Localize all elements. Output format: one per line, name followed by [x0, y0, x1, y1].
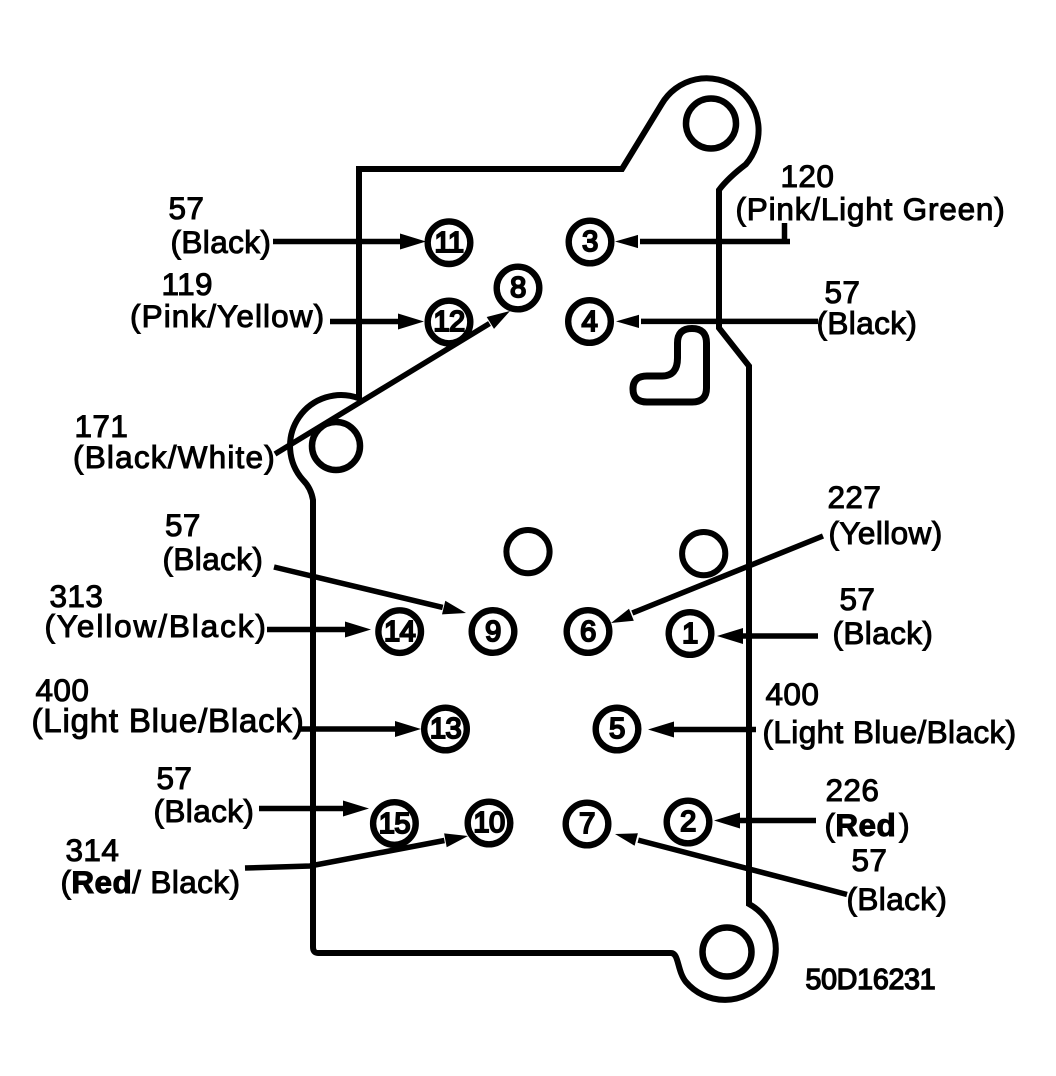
pin 13 number [430, 715, 461, 744]
pin 6 number [580, 618, 596, 647]
label 57 (Black) for pin 7 [0, 0, 1, 1]
pin 4 terminal [568, 300, 611, 343]
pin 9 number [485, 618, 501, 647]
pin 7 terminal [566, 803, 609, 846]
pin 1 number [682, 620, 698, 649]
index hole left center [506, 530, 549, 573]
keying slot (L-shaped) [633, 329, 707, 403]
stub for 120 label [782, 223, 788, 242]
pin 3 terminal [569, 221, 612, 264]
label 119 (Pink/Yellow) for pin 12 [0, 0, 1, 1]
pin 4 number [582, 308, 598, 337]
label 226 (Red) for pin 2 [0, 0, 1, 1]
pin 5 terminal [596, 708, 639, 751]
pin 6 terminal [567, 610, 610, 653]
wire 400 to pin 13 [300, 721, 421, 737]
pin 11 number [434, 229, 463, 258]
label 57 (Black) for pin 1 [0, 0, 1, 1]
wire 57 to pin 7 [615, 833, 847, 894]
wire 57 to pin 1 [717, 628, 818, 644]
pin 14 terminal [378, 610, 421, 653]
wire 314 to pin 10 [245, 833, 468, 868]
label 400 (Light Blue/Black) for pin 13 [0, 0, 1, 1]
pin 7 number [579, 810, 595, 839]
label 227 (Yellow) for pin 6 [0, 0, 1, 1]
pin 11 terminal [428, 221, 471, 264]
pin 12 number [433, 308, 464, 337]
pin 2 number [680, 808, 696, 837]
label 171 (Black/White) for pin 8 [0, 0, 1, 1]
pin 10 number [473, 809, 504, 838]
label 120 (Pink/Light Green) for pin 3 [0, 0, 1, 1]
pin 2 terminal [667, 801, 710, 844]
pin 10 terminal [468, 802, 511, 845]
pin 15 terminal [373, 802, 416, 845]
pin 12 terminal [428, 301, 471, 344]
label 57 (Black) for pin 4 [0, 0, 1, 1]
wire 57 to pin 15 [259, 801, 369, 817]
pin 3 number [582, 228, 598, 257]
pin 13 terminal [424, 708, 467, 751]
top mounting hole [686, 99, 736, 149]
label 400 (Light Blue/Black) for pin 5 [0, 0, 1, 1]
wire 57 to pin 11 [273, 234, 426, 250]
label 57 (Black) for pin 9 [0, 0, 1, 1]
bottom mounting hole [703, 928, 752, 977]
pin 8 terminal [497, 267, 540, 310]
wire 57 to pin 4 [616, 315, 818, 328]
left mounting hole [312, 422, 360, 470]
wire 120 to pin 3 [615, 235, 790, 248]
wire 313 to pin 14 [267, 622, 371, 638]
label 313 (Yellow/Black) for pin 14 [0, 0, 1, 1]
pin 9 terminal [472, 610, 515, 653]
label 57 (Black) for pin 11 [0, 0, 1, 1]
label 57 (Black) for pin 15 [0, 0, 1, 1]
index hole right center [682, 532, 725, 575]
wire 57 to pin 9 [274, 567, 466, 614]
wire 400 to pin 5 [648, 722, 756, 738]
wire 171 to pin 8 [275, 311, 510, 454]
pin 8 number [510, 274, 526, 303]
pin 1 terminal [669, 612, 712, 655]
label figure number 50D16231 [0, 0, 1, 1]
pin 5 number [609, 715, 625, 744]
label 314 (Red/Black) for pin 10 [0, 0, 1, 1]
connector body outline [290, 78, 776, 1000]
wire 227 to pin 6 [611, 536, 823, 623]
pin 14 number [384, 618, 415, 647]
wire 226 to pin 2 [714, 813, 816, 829]
wire 119 to pin 12 [330, 314, 424, 330]
pin 15 number [379, 810, 410, 839]
